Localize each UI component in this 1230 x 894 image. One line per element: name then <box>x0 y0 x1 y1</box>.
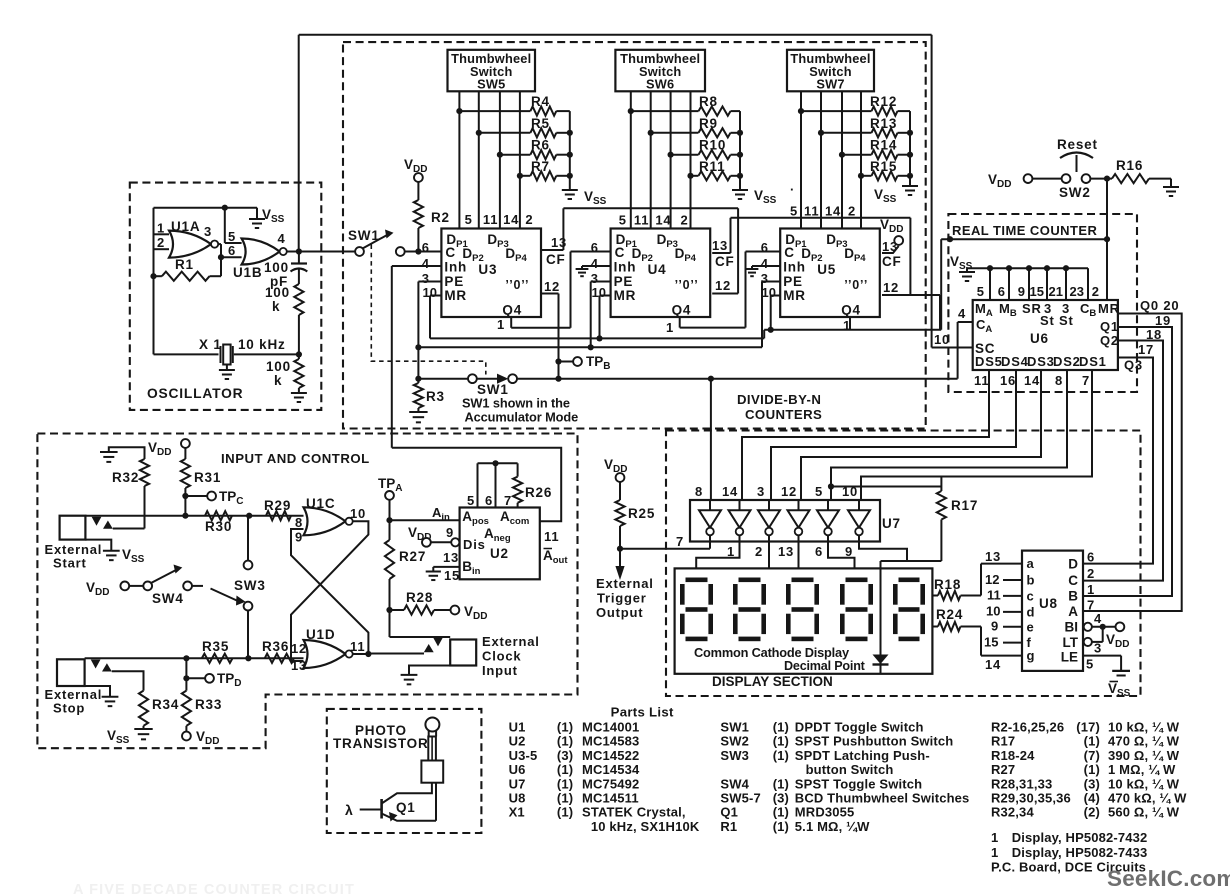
svg-text:12: 12 <box>291 641 307 656</box>
svg-text:11: 11 <box>350 639 365 654</box>
resistor R16 <box>1112 174 1149 183</box>
svg-text:5: 5 <box>815 484 823 499</box>
wire oscillator output <box>287 251 360 253</box>
converter U2 box <box>460 508 540 580</box>
svg-text:R17: R17 <box>991 734 1015 749</box>
svg-text:MC75492: MC75492 <box>582 776 639 791</box>
wire U6 top pin <box>1046 268 1048 300</box>
wire crystal line <box>154 353 219 355</box>
node U1D output junction <box>365 651 371 657</box>
wire Q3 pin17 to U8 D <box>1083 358 1153 564</box>
svg-text:U8: U8 <box>509 791 526 806</box>
seven segment digit 5 <box>899 578 920 583</box>
svg-text:R2: R2 <box>431 210 450 225</box>
wire thumbwheel R6 column <box>499 91 501 228</box>
svg-text:4: 4 <box>591 256 599 271</box>
node trigger junction <box>617 546 623 552</box>
node SW1b to zero-riser <box>555 376 561 382</box>
svg-text:Parts List: Parts List <box>611 705 674 720</box>
terminal VDD R33 <box>185 726 187 732</box>
parts list column 2 <box>720 720 969 834</box>
svg-text:13: 13 <box>985 549 1001 564</box>
photo transistor body <box>428 737 436 761</box>
diode decimal point <box>873 655 889 665</box>
resistor R14 <box>842 154 872 156</box>
svg-text:3: 3 <box>204 224 212 239</box>
svg-text:MRD3055: MRD3055 <box>795 805 855 820</box>
wire U6 DS4 to display driver <box>771 370 1016 500</box>
node TPD junction <box>183 655 189 661</box>
svg-text:DS4: DS4 <box>1001 354 1029 369</box>
svg-text:1: 1 <box>991 845 998 860</box>
svg-text:1: 1 <box>157 221 165 236</box>
svg-text:BI: BI <box>1065 620 1079 635</box>
svg-text:2: 2 <box>525 212 533 227</box>
svg-text:2: 2 <box>1092 284 1099 299</box>
svg-text:λ: λ <box>345 802 354 818</box>
wire SW1b common to U6 CA <box>517 378 958 380</box>
svg-text:12: 12 <box>781 484 797 499</box>
wire reset line to counters MR bus <box>941 238 1107 240</box>
wire ladder bus <box>569 111 571 190</box>
svg-text:(2): (2) <box>1084 805 1100 820</box>
thumbwheel switch SW5 <box>448 50 536 92</box>
switch SW1 section a <box>355 247 364 256</box>
counter U4 box <box>611 229 711 318</box>
svg-text:R28,31,33: R28,31,33 <box>991 776 1052 791</box>
svg-text:10: 10 <box>986 604 1000 619</box>
resistor R28 <box>390 609 405 611</box>
svg-text:6: 6 <box>998 284 1005 299</box>
node SW1b junction R3 <box>415 376 421 382</box>
svg-text:SW6: SW6 <box>646 77 674 92</box>
svg-text:U1A: U1A <box>171 219 200 234</box>
svg-text:SW7: SW7 <box>816 77 844 92</box>
wire thumbwheel R13 column <box>820 91 822 228</box>
resistor R26 <box>517 463 519 476</box>
node TPB junction <box>555 358 561 364</box>
wire U5 Q4 stub <box>849 317 851 330</box>
svg-text:10: 10 <box>762 285 776 300</box>
op-amp U1C NOR gate <box>304 507 346 535</box>
ground ladder SW7 <box>902 185 918 187</box>
stub U8 pin f <box>1003 642 1022 644</box>
svg-text:7: 7 <box>676 534 684 549</box>
svg-text:(1): (1) <box>1084 762 1100 777</box>
terminal VDD R25 <box>616 473 625 482</box>
terminal U8 LT <box>1084 638 1092 646</box>
node TPC junction <box>182 493 188 499</box>
svg-text:5: 5 <box>467 493 475 508</box>
terminal VDD U8 <box>1116 622 1125 631</box>
svg-text:SW4: SW4 <box>720 776 749 791</box>
real time counter dashed box <box>948 214 1137 392</box>
svg-text:R15: R15 <box>870 159 897 174</box>
svg-text:9: 9 <box>1018 284 1025 299</box>
svg-text:St: St <box>1059 313 1074 328</box>
svg-text:1 MΩ, ¼ W: 1 MΩ, ¼ W <box>1108 762 1176 777</box>
svg-text:C: C <box>1068 573 1078 588</box>
resistor R3 <box>414 383 423 408</box>
svg-text:1: 1 <box>1087 582 1095 597</box>
svg-text:CF: CF <box>715 254 735 269</box>
wire U3 Q4 to U4 C <box>510 317 512 328</box>
resistor R31 <box>184 448 186 459</box>
svg-text:R32,34: R32,34 <box>991 805 1034 820</box>
svg-text:9: 9 <box>295 530 303 545</box>
seven segment digit 3 <box>792 578 814 583</box>
svg-text:15: 15 <box>1030 284 1044 299</box>
svg-text:R1: R1 <box>720 819 737 834</box>
svg-text:Q0 20: Q0 20 <box>1140 298 1179 313</box>
wire thumbwheel R9 column <box>650 91 652 228</box>
wire Dis <box>431 541 451 543</box>
svg-text:Inh: Inh <box>614 260 637 275</box>
svg-text:R18-24: R18-24 <box>991 748 1035 763</box>
svg-text:R4: R4 <box>531 94 550 109</box>
ground crystal <box>226 365 228 371</box>
svg-text:DIVIDE-BY-N: DIVIDE-BY-N <box>737 392 821 407</box>
parts list column 3 <box>991 720 1187 820</box>
wire left vertical <box>153 208 155 355</box>
wire U7 pin7 output to trigger <box>709 535 711 548</box>
svg-text:SW5: SW5 <box>477 77 505 92</box>
counter U5 box <box>780 229 880 318</box>
wire U6 top pin <box>1028 268 1030 300</box>
svg-text:SW1 shown in the: SW1 shown in the <box>462 396 570 411</box>
svg-text:(17): (17) <box>1076 720 1100 735</box>
svg-text:MC14522: MC14522 <box>582 748 639 763</box>
svg-text:Inh: Inh <box>444 260 467 275</box>
svg-text:REAL TIME COUNTER: REAL TIME COUNTER <box>952 223 1098 238</box>
svg-text:R18: R18 <box>934 577 961 592</box>
wire U6 DS2 to display driver <box>831 370 1067 500</box>
wire thumbwheel R15 column <box>860 91 862 228</box>
svg-text:MC14001: MC14001 <box>582 720 639 735</box>
junction top <box>222 205 228 211</box>
resistor R1 <box>154 275 162 277</box>
svg-text:OSCILLATOR: OSCILLATOR <box>147 386 243 401</box>
wire carry line U5 zero to U4 CF <box>731 217 911 219</box>
counter U6 box <box>973 300 1118 370</box>
svg-text:4: 4 <box>1094 611 1102 626</box>
svg-text:3: 3 <box>422 271 429 286</box>
terminal VDD R28 <box>451 606 460 615</box>
wire thumbwheel R11 column <box>690 91 692 228</box>
wire drop to U7 pin 8 <box>710 379 712 500</box>
wire U1A input 2 <box>154 248 170 250</box>
wire U6 VSS bus <box>967 267 1088 269</box>
svg-text:k: k <box>272 299 280 314</box>
svg-text:1: 1 <box>497 317 505 332</box>
svg-text:Reset: Reset <box>1057 137 1098 152</box>
wire TPD stub <box>185 658 187 690</box>
svg-text:R25: R25 <box>628 506 655 521</box>
svg-text:12: 12 <box>985 572 999 587</box>
svg-text:10 kΩ, ¼ W: 10 kΩ, ¼ W <box>1108 776 1180 791</box>
node PE bus left <box>415 344 421 350</box>
wire PE bus <box>418 346 762 348</box>
photo transistor dashed box <box>327 709 482 833</box>
svg-text:4: 4 <box>422 256 430 271</box>
svg-text:(1): (1) <box>773 819 789 834</box>
svg-text:(1): (1) <box>557 805 573 820</box>
wire BI to VDD <box>1092 626 1115 628</box>
svg-text:(3): (3) <box>1084 776 1100 791</box>
svg-text:R36: R36 <box>262 639 289 654</box>
svg-text:SW2: SW2 <box>1059 185 1091 200</box>
svg-text:SW1: SW1 <box>720 720 749 735</box>
svg-text:R34: R34 <box>152 697 179 712</box>
svg-text:Q1: Q1 <box>720 805 738 820</box>
wire input line to U1C <box>85 515 303 517</box>
wire Ain to U2 <box>390 519 460 521</box>
wire U5 MR riser <box>771 295 781 297</box>
svg-text:Output: Output <box>596 605 643 620</box>
resistor R27 <box>385 540 394 579</box>
svg-text:12: 12 <box>883 280 899 295</box>
svg-text:U1: U1 <box>509 720 526 735</box>
external stop box <box>57 659 85 686</box>
svg-text:St: St <box>1040 313 1055 328</box>
svg-text:19: 19 <box>1155 313 1171 328</box>
svg-text:8: 8 <box>695 484 703 499</box>
svg-text:Trigger: Trigger <box>597 591 647 606</box>
ground external start <box>103 550 120 552</box>
svg-text:SW2: SW2 <box>720 734 749 749</box>
wire clock ground <box>409 666 450 675</box>
seven segment digit 1 <box>686 578 708 583</box>
svg-text:External: External <box>596 576 654 591</box>
svg-text:560 Ω, ¼ W: 560 Ω, ¼ W <box>1108 805 1180 820</box>
svg-text:CF: CF <box>546 252 566 267</box>
resistor R11 <box>691 175 699 177</box>
svg-text:14: 14 <box>825 204 841 219</box>
wire Aout feedback to U3 Inh <box>392 448 561 522</box>
node display driver drop <box>708 376 714 382</box>
svg-text:R12: R12 <box>870 94 897 109</box>
svg-text:7: 7 <box>1082 373 1090 388</box>
svg-text:c: c <box>1027 588 1035 603</box>
wire U1A output to R1/U1B <box>218 243 221 245</box>
resistor 100k upper <box>294 284 303 315</box>
wire U4 CF stub riser <box>712 252 730 254</box>
svg-text:·: · <box>790 182 795 197</box>
node reset line <box>1104 236 1110 242</box>
wire Q2 to U8 C <box>1083 341 1163 581</box>
capacitor 100 pF <box>298 252 300 264</box>
svg-text:SW1: SW1 <box>348 228 380 243</box>
wire VDD to SW2 <box>1033 178 1062 180</box>
svg-text:14: 14 <box>722 484 738 499</box>
inverter U7 element 6 <box>848 510 870 527</box>
svg-text:Q4: Q4 <box>672 303 692 318</box>
wire ladder bus <box>909 111 911 186</box>
wire stop line to U1D <box>85 657 304 659</box>
ground ladder SW5 <box>562 189 578 191</box>
resistor R29 <box>266 511 291 520</box>
resistor R2 <box>417 182 419 200</box>
svg-text:SeekIC.com: SeekIC.com <box>1107 866 1230 891</box>
svg-text:DPDT Toggle Switch: DPDT Toggle Switch <box>795 720 924 735</box>
svg-text:17: 17 <box>1138 342 1154 357</box>
wire U3 CF stub and riser <box>541 249 563 251</box>
svg-text:DISPLAY SECTION: DISPLAY SECTION <box>712 674 833 689</box>
label Aout <box>544 548 553 550</box>
svg-text:R16: R16 <box>1116 158 1143 173</box>
connector arrows external clock <box>433 637 443 646</box>
pushbutton SW2 <box>1060 153 1093 159</box>
driver U7 box <box>690 500 880 542</box>
svg-text:MR: MR <box>614 288 637 303</box>
wire U5 PE riser <box>762 281 780 283</box>
terminal VDD U5 CF <box>894 236 903 245</box>
node BI LT junction <box>1100 624 1106 630</box>
svg-text:6: 6 <box>1087 550 1095 565</box>
svg-text:R5: R5 <box>531 116 550 131</box>
svg-text:R29,30,35,36: R29,30,35,36 <box>991 791 1071 806</box>
wire oscillator output riser to top <box>298 35 300 252</box>
svg-text:100: 100 <box>266 359 291 374</box>
test point TPC <box>185 495 207 497</box>
svg-text:Input: Input <box>482 663 518 678</box>
svg-text:9: 9 <box>991 619 998 634</box>
svg-text:(1): (1) <box>557 762 573 777</box>
svg-text:Q1: Q1 <box>1100 319 1119 334</box>
svg-text:DS2: DS2 <box>1053 354 1081 369</box>
svg-text:(1): (1) <box>773 805 789 820</box>
svg-text:Q3: Q3 <box>1124 358 1143 373</box>
wire U1D output <box>353 653 368 655</box>
svg-text:R7: R7 <box>531 159 550 174</box>
resistor R6 <box>500 154 531 156</box>
svg-text:7: 7 <box>504 493 512 508</box>
svg-text:Q1: Q1 <box>396 800 416 815</box>
svg-text:g: g <box>1027 648 1036 663</box>
svg-text:A FIVE DECADE COUNTER CIRCUIT: A FIVE DECADE COUNTER CIRCUIT <box>73 882 355 894</box>
switch SW3 lever <box>192 585 203 587</box>
svg-text:CF: CF <box>882 254 902 269</box>
transistor Q1 <box>380 799 383 819</box>
svg-text:R27: R27 <box>399 549 426 564</box>
svg-text:DS5: DS5 <box>975 354 1003 369</box>
svg-text:4: 4 <box>761 256 769 271</box>
svg-text:13: 13 <box>882 239 898 254</box>
svg-text:R28: R28 <box>406 590 433 605</box>
display box common cathode <box>675 568 933 673</box>
node Ain junction <box>386 517 392 523</box>
node R1 left junction <box>150 273 156 279</box>
connector arrows external stop <box>91 660 101 669</box>
wire LT to junction <box>1092 641 1103 643</box>
svg-text:(1): (1) <box>557 734 573 749</box>
svg-text:1: 1 <box>666 320 674 335</box>
svg-text:SPST Pushbutton Switch: SPST Pushbutton Switch <box>795 734 954 749</box>
resistor R10 <box>671 154 699 156</box>
svg-text:13: 13 <box>551 235 567 250</box>
resistor R7 <box>520 175 531 177</box>
svg-text:Common Cathode Display: Common Cathode Display <box>694 645 850 660</box>
resistor R17 <box>940 477 942 492</box>
node U5 MR on bus <box>768 327 774 333</box>
svg-text:SW4: SW4 <box>152 591 184 606</box>
svg-text:MR: MR <box>1098 301 1120 316</box>
svg-text:R35: R35 <box>202 639 229 654</box>
svg-text:k: k <box>274 373 282 388</box>
svg-text:6: 6 <box>485 493 493 508</box>
node reset junction <box>1104 176 1110 182</box>
svg-text:R32: R32 <box>112 470 139 485</box>
wire MR bus <box>430 337 764 339</box>
wire start ground <box>85 540 111 551</box>
svg-text:X1: X1 <box>509 805 525 820</box>
svg-text:11: 11 <box>483 212 498 227</box>
divide-by-n counters dashed box <box>343 42 926 428</box>
svg-text:a: a <box>1027 556 1035 571</box>
svg-text:R6: R6 <box>531 138 550 153</box>
svg-text:11: 11 <box>634 213 649 228</box>
wire U6 top pin <box>989 268 991 300</box>
wire trigger output arrow <box>619 549 621 567</box>
svg-text:14: 14 <box>985 657 1001 672</box>
node U4 PE on bus <box>588 344 594 350</box>
resistor R8 <box>631 110 699 112</box>
resistor R5 <box>479 132 531 134</box>
svg-text:TRANSISTOR: TRANSISTOR <box>333 736 429 751</box>
svg-text:PE: PE <box>783 274 803 289</box>
wire oscillator top line to U6 SC <box>299 34 932 36</box>
terminal SW3 upper <box>244 561 253 570</box>
svg-text:A: A <box>1068 604 1078 619</box>
svg-text:e: e <box>1027 619 1035 634</box>
svg-text:11: 11 <box>987 588 1001 603</box>
svg-text:1: 1 <box>991 830 998 845</box>
wire TPA down <box>389 500 391 540</box>
svg-text:2: 2 <box>681 213 689 228</box>
terminal VDD SW2 <box>1024 174 1033 183</box>
resistor R24 <box>932 626 938 628</box>
svg-text:LT: LT <box>1063 635 1079 650</box>
svg-text:5.1 MΩ, ¼W: 5.1 MΩ, ¼W <box>795 819 870 834</box>
ground oscillator bottom <box>298 388 300 393</box>
svg-text:14: 14 <box>655 213 671 228</box>
wire CA riser <box>957 322 959 379</box>
svg-text:5: 5 <box>1086 657 1094 672</box>
svg-text:390 Ω, ¼ W: 390 Ω, ¼ W <box>1108 748 1180 763</box>
svg-text:d: d <box>1027 604 1036 619</box>
wire thumbwheel R4 column <box>458 91 460 228</box>
svg-text:9: 9 <box>845 544 853 559</box>
resistor R35 <box>202 654 233 663</box>
terminal U8 BI <box>1084 623 1092 631</box>
svg-text:(1): (1) <box>773 734 789 749</box>
svg-text:U3-5: U3-5 <box>509 748 538 763</box>
test point TPA <box>385 491 394 500</box>
ground U8 LE <box>1112 670 1130 672</box>
wire MR bus riser to reset line <box>940 239 942 330</box>
svg-text:470 Ω, ¼ W: 470 Ω, ¼ W <box>1108 734 1180 749</box>
switch SW1 section b <box>418 378 468 380</box>
svg-text:14: 14 <box>503 212 519 227</box>
wire decimal point line <box>880 568 882 673</box>
svg-text:SW5-7: SW5-7 <box>720 791 760 806</box>
wire to external clock <box>390 636 451 638</box>
svg-text:11: 11 <box>974 373 989 388</box>
svg-text:INPUT AND CONTROL: INPUT AND CONTROL <box>221 451 370 466</box>
inverter U7 element 2 <box>729 510 751 527</box>
svg-text:U5: U5 <box>817 262 836 277</box>
svg-text:(1): (1) <box>557 720 573 735</box>
